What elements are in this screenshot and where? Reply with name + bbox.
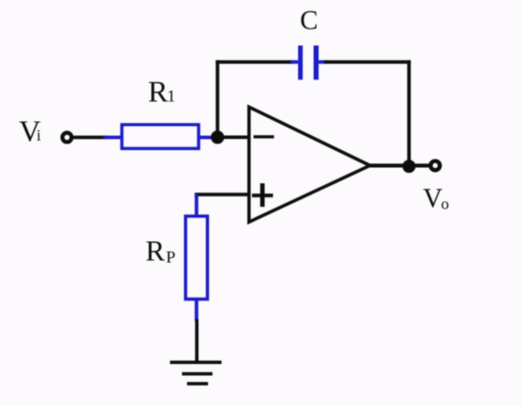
svg-text:i: i [37,128,42,145]
label RP [146,236,176,268]
label Vo [423,183,449,213]
svg-text:R: R [146,236,166,268]
svg-text:o: o [441,196,449,213]
resistor R1 [104,125,213,149]
wire input [74,136,108,140]
capacitor C [291,46,326,80]
node B output junction [402,160,415,173]
svg-text:V: V [423,183,443,213]
op-amp U1 [249,107,370,222]
terminal Vi [62,133,71,142]
svg-text:R: R [148,76,168,109]
wire feedback top left [216,60,293,63]
terminal Vo [431,161,440,170]
ground [170,362,222,383]
wire junction to op-amp inverting input [218,135,251,139]
svg-text:1: 1 [167,87,176,106]
wire feedback riser [216,60,220,137]
wire output [370,164,430,168]
wire feedback dropper [407,60,411,166]
wire feedback top right [324,60,411,63]
svg-text:P: P [166,248,175,267]
resistor RP [186,195,208,322]
wire to ground [195,319,198,363]
node A inverting-input junction [211,131,224,144]
svg-text:C: C [300,5,318,35]
wire noninverting input [197,195,251,197]
label R1 [148,76,176,109]
